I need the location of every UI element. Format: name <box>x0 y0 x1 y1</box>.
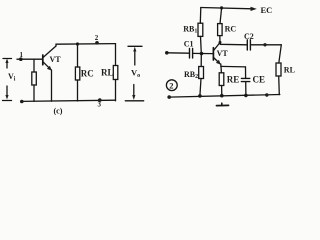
RC upper wire <box>220 8 222 24</box>
RB2 upper wire <box>200 54 202 67</box>
RL lower wire <box>115 80 117 101</box>
base wire <box>17 58 43 60</box>
svg-text:RL: RL <box>101 68 114 78</box>
CE rail junction dot <box>244 94 248 98</box>
RC top rail junction dot <box>220 6 223 9</box>
svg-text:C2: C2 <box>244 32 254 41</box>
capacitor CE plates <box>241 78 249 81</box>
resistor RC box <box>218 24 223 36</box>
transistor VT emitter with arrow <box>214 58 221 65</box>
C1 to base node wire <box>193 52 202 54</box>
emitter node wire to CE branch <box>221 65 246 68</box>
svg-text:EC: EC <box>261 5 273 15</box>
node 2 dot <box>95 41 99 45</box>
svg-text:3: 3 <box>98 101 102 109</box>
resistor RE box <box>219 73 224 86</box>
RC upper wire <box>77 44 79 67</box>
capacitor C2 plates <box>247 40 250 50</box>
svg-text:VT: VT <box>50 55 62 64</box>
base wire right <box>202 53 213 55</box>
collector corner to top rail <box>56 44 116 46</box>
input terminal dot <box>165 51 169 55</box>
input wire to C1 <box>167 52 189 54</box>
base resistor lower wire <box>33 85 35 101</box>
svg-text:2: 2 <box>95 34 99 42</box>
RE upper wire <box>220 66 222 72</box>
bottom rail left end dot <box>167 95 171 99</box>
svg-text:2: 2 <box>169 80 173 90</box>
emitter wire down <box>51 70 53 101</box>
resistor RB2 box <box>199 67 204 79</box>
RB1 lower wire <box>200 36 203 53</box>
svg-text:VT: VT <box>217 49 229 58</box>
transistor VT collector <box>43 46 56 58</box>
svg-text:C1: C1 <box>184 39 194 48</box>
C2 output wire <box>251 44 282 46</box>
output terminal bottom bar <box>125 100 143 102</box>
svg-text:RL: RL <box>284 66 295 75</box>
resistor RL box <box>276 63 281 76</box>
RB2 lower wire <box>200 79 201 96</box>
output voltage down arrow <box>132 85 135 101</box>
base resistor box <box>32 72 37 85</box>
base resistor upper wire <box>33 59 35 72</box>
RB1 upper wire <box>199 8 202 24</box>
input terminal top bar <box>3 58 12 60</box>
svg-text:CE: CE <box>253 75 266 85</box>
input voltage up arrow <box>5 59 8 69</box>
transistor VT base bar <box>212 48 214 60</box>
svg-text:RC: RC <box>225 25 237 34</box>
RE rail junction dot <box>220 94 224 98</box>
bottom rail <box>169 95 280 98</box>
output corner down to RL <box>279 45 282 63</box>
RB2 rail junction dot <box>198 94 202 98</box>
output voltage up arrow <box>133 47 136 65</box>
resistor RL box <box>113 66 118 80</box>
RE lower wire <box>221 86 223 96</box>
svg-text:RE: RE <box>227 74 240 84</box>
collector node junction dot <box>219 41 222 44</box>
capacitor C1 plates <box>190 49 193 59</box>
input voltage down arrow <box>5 86 8 100</box>
output node dot <box>263 43 266 46</box>
output terminal top bar <box>128 45 142 47</box>
RC lower wire to collector node <box>219 36 221 43</box>
input terminal bottom bar <box>3 100 12 102</box>
node 1 dot <box>19 57 23 61</box>
rail dot right <box>265 93 268 96</box>
svg-text:(c): (c) <box>54 107 63 116</box>
resistor RB1 box <box>198 23 203 36</box>
bottom rail <box>22 100 116 101</box>
RL lower wire <box>278 76 281 95</box>
bottom rail left end dot <box>20 100 24 104</box>
circled 2 label <box>166 80 177 91</box>
transistor VT collector <box>214 43 220 51</box>
top rail <box>201 8 253 9</box>
svg-text:RC: RC <box>81 69 94 79</box>
CE lower wire <box>245 82 247 96</box>
CE upper wire <box>245 67 247 78</box>
RC lower wire <box>77 80 79 101</box>
transistor VT emitter with arrow <box>43 62 52 71</box>
RC junction dot <box>76 42 79 45</box>
base node dot <box>200 52 204 56</box>
stray mark bottom (cropped character) <box>217 103 229 105</box>
node 3 dot <box>98 98 102 102</box>
resistor RC box <box>75 67 79 80</box>
top rail right corner down to RL <box>115 44 117 66</box>
emitter wire down <box>220 64 222 66</box>
EC arrowhead <box>251 7 257 11</box>
collector node corner <box>220 43 247 45</box>
transistor VT base bar <box>42 55 44 65</box>
